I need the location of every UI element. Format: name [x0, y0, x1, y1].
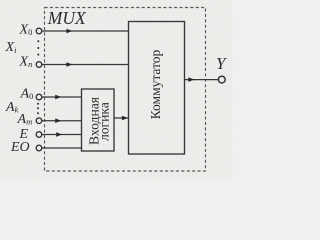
terminal Xn	[36, 62, 42, 68]
dotted continuation X	[37, 40, 39, 42]
input logic block U2	[82, 89, 115, 151]
wire E to input logic	[42, 134, 82, 136]
wire A0 to input logic	[42, 96, 82, 98]
wire Xn to commutator	[42, 64, 129, 66]
arrowhead on A0 wire	[55, 95, 61, 100]
commutator block U1	[129, 22, 185, 155]
terminal Y	[218, 76, 225, 83]
arrowhead on logic-commutator wire	[122, 116, 128, 121]
terminal Am	[36, 118, 42, 124]
dotted continuation A	[37, 103, 39, 105]
terminal X0	[36, 28, 42, 34]
arrowhead on Am wire	[55, 118, 61, 123]
wire commutator to Y terminal	[185, 79, 219, 81]
terminal A0	[36, 94, 42, 100]
arrowhead on X0 wire	[66, 29, 72, 34]
wire EO to input logic	[42, 147, 82, 149]
MUX dashed boundary box	[45, 8, 206, 172]
wire input logic to commutator	[114, 117, 129, 119]
terminal EO	[36, 145, 42, 151]
wire X0 to commutator	[42, 30, 129, 32]
terminal E	[36, 132, 42, 138]
arrowhead on E wire	[56, 132, 62, 137]
arrowhead on Xn wire	[66, 62, 72, 67]
arrowhead on output wire	[188, 77, 194, 82]
wire Am to input logic	[42, 120, 82, 122]
